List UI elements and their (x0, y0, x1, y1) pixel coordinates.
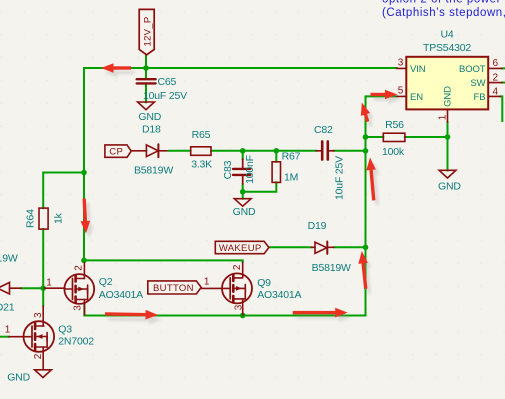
svg-text:R67: R67 (282, 151, 301, 163)
wire R67 top (275, 151, 277, 162)
wire SW stub (502, 82, 505, 84)
svg-text:3.3K: 3.3K (191, 158, 212, 170)
ground below C65 (138, 102, 155, 110)
svg-text:1: 1 (437, 114, 448, 120)
svg-text:WAKEUP: WAKEUP (219, 243, 262, 254)
wire FB down (501, 96, 503, 121)
capacitor C65 (137, 79, 156, 83)
wire C83 bottom to GND junction (242, 184, 244, 199)
wire Q2 drain to Q9 drain (84, 260, 243, 262)
junction left jog (81, 170, 87, 176)
global label CP (105, 145, 131, 157)
junction EN/R56 (363, 134, 369, 140)
diode D21 (0, 282, 21, 294)
svg-text:R56: R56 (385, 119, 404, 131)
resistor R64 (39, 208, 48, 229)
svg-text:12V_P: 12V_P (142, 16, 153, 46)
svg-text:C65: C65 (158, 76, 177, 88)
wire R56 right to GND node (405, 136, 448, 138)
wire WAKEUP to D19 (270, 246, 312, 248)
svg-text:BOOT: BOOT (459, 64, 486, 75)
svg-text:2: 2 (33, 353, 44, 359)
svg-text:AO3401A: AO3401A (99, 289, 143, 301)
pin 4 FB (488, 95, 500, 97)
svg-text:C82: C82 (314, 124, 333, 136)
power flag 12V_P (139, 9, 154, 54)
resistor R56 (383, 133, 405, 141)
annotation arrow down on left rail (79, 198, 90, 233)
svg-text:3: 3 (33, 312, 44, 318)
svg-text:GND: GND (138, 111, 161, 123)
resistor R65 (191, 147, 211, 156)
wire left vertical 84 (83, 68, 85, 260)
svg-text:1k: 1k (53, 212, 65, 224)
svg-text:6: 6 (493, 58, 499, 69)
wire junction to C65 top (145, 68, 147, 78)
svg-text:R65: R65 (192, 129, 211, 141)
transistor Q3 2N7002 (9, 306, 54, 370)
svg-text:5: 5 (398, 86, 404, 97)
svg-text:D19: D19 (308, 220, 327, 232)
svg-text:GND: GND (442, 86, 453, 107)
svg-text:D21: D21 (0, 302, 15, 314)
svg-text:AO3401A: AO3401A (257, 289, 301, 301)
capacitor C83 (233, 159, 250, 184)
svg-text:R64: R64 (25, 209, 37, 228)
svg-text:B5819W: B5819W (0, 252, 18, 264)
wire BOOT stub (502, 67, 505, 69)
ground below U4 (439, 170, 456, 178)
junction D19 (363, 245, 369, 251)
ground below Q3 (35, 370, 52, 378)
wire C65 bottom to GND (145, 84, 147, 102)
global label WAKEUP (215, 241, 269, 253)
svg-text:BUTTON: BUTTON (153, 283, 194, 294)
svg-text:1: 1 (204, 277, 210, 288)
svg-text:GND: GND (7, 372, 30, 384)
svg-text:B5819W: B5819W (134, 165, 173, 177)
wire D21 to gate junction (21, 287, 44, 289)
capacitor C82 (316, 141, 334, 159)
svg-text:Q2: Q2 (99, 276, 113, 288)
IC U4 TPS54302 (406, 57, 488, 110)
svg-text:1: 1 (46, 277, 52, 288)
pin 1 GND (447, 109, 449, 122)
wire CP row R65 to C82 (211, 150, 316, 152)
svg-text:10uF 25V: 10uF 25V (333, 156, 345, 200)
wire R64 bottom to gate node (42, 229, 44, 288)
svg-text:(Catphish’s stepdown,: (Catphish’s stepdown, (382, 7, 505, 19)
wire bottom row (84, 96, 396, 315)
resistor R67 (272, 162, 280, 183)
wire Q3 gate stub (0, 336, 9, 338)
junction C83 top (240, 148, 246, 154)
svg-text:FB: FB (474, 92, 486, 103)
svg-text:GND: GND (438, 181, 461, 193)
annotation arrow up at R56 junction (365, 157, 378, 201)
svg-text:TPS54302: TPS54302 (423, 42, 471, 54)
svg-text:Q9: Q9 (257, 277, 271, 289)
wire U4 pin1 to GND (447, 122, 449, 171)
svg-text:B5819W: B5819W (312, 262, 351, 274)
svg-text:100nF: 100nF (244, 155, 256, 184)
pin 2 SW (488, 82, 502, 84)
pin 6 BOOT (488, 67, 502, 69)
svg-text:4: 4 (493, 86, 499, 97)
global label BUTTON (148, 281, 201, 294)
junction EN/C82 (363, 148, 369, 154)
junction GND/R56 (445, 134, 451, 140)
wire VIN rail horizontal (84, 67, 397, 69)
transistor Q2 AO3401A (44, 263, 94, 316)
annotation arrow right on bottom wire left (105, 309, 158, 320)
pin 3 VIN (397, 67, 407, 69)
wire D19 to vertical (334, 246, 366, 248)
svg-text:VIN: VIN (410, 64, 426, 75)
svg-text:SW: SW (470, 78, 485, 89)
junction R67 top (274, 148, 280, 154)
wire D18 to R65 (169, 150, 191, 152)
annotation arrow right on bottom wire right (293, 308, 348, 318)
svg-text:1M: 1M (284, 172, 298, 184)
svg-text:D18: D18 (142, 123, 161, 135)
wire C82 right to vertical (334, 150, 366, 152)
annotation arrow up at D19 junction (357, 250, 371, 289)
svg-text:2N7002: 2N7002 (58, 336, 94, 348)
junction C83 bottom (240, 189, 246, 195)
wire 12V_P to junction (145, 55, 147, 68)
svg-text:3: 3 (233, 304, 244, 310)
diode D18 (131, 144, 168, 157)
wire C83 GND to R67 bottom (243, 182, 277, 191)
svg-text:option 2 of the power: option 2 of the power (382, 0, 501, 6)
wire C83 top (242, 151, 244, 159)
blue note text (382, 0, 505, 19)
svg-text:2: 2 (74, 265, 85, 271)
svg-text:1: 1 (5, 325, 11, 336)
annotation arrow left at 12V junction (101, 63, 131, 73)
svg-text:Q3: Q3 (58, 323, 72, 335)
svg-text:GND: GND (233, 206, 256, 218)
svg-text:EN: EN (410, 92, 423, 103)
svg-text:100k: 100k (382, 146, 405, 158)
svg-text:CP: CP (109, 146, 123, 157)
annotation arrow up small below EN (357, 101, 372, 123)
svg-text:C83: C83 (222, 160, 234, 179)
svg-text:2: 2 (232, 264, 243, 270)
svg-text:3: 3 (73, 305, 84, 311)
junction Q9 source (240, 313, 246, 319)
junction 12V rail (143, 65, 149, 71)
junction gate node (40, 285, 46, 291)
wire R56 left (366, 136, 384, 138)
pin 5 EN (397, 95, 407, 97)
svg-text:U4: U4 (440, 29, 453, 41)
annotation arrow right at EN pin (371, 90, 398, 100)
svg-text:2: 2 (493, 73, 499, 84)
wire jog to R64 (43, 173, 84, 209)
ground below C83 (234, 199, 251, 207)
svg-text:10uF 25V: 10uF 25V (143, 90, 187, 102)
diode D19 (312, 242, 335, 254)
junction Q2 drain (81, 258, 87, 264)
transistor Q9 AO3401A (201, 262, 252, 315)
svg-text:3: 3 (398, 58, 404, 69)
wire gate node down to Q3 drain (42, 288, 44, 306)
